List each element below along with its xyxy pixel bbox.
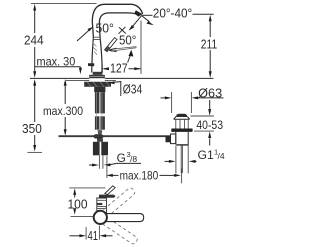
x mark xyxy=(119,27,126,34)
svg-text:40-53: 40-53 xyxy=(196,119,223,132)
label O34 xyxy=(108,81,114,84)
ball joint xyxy=(92,134,104,138)
dim G1 1/4 xyxy=(165,160,171,162)
drain seal band xyxy=(171,129,192,132)
svg-text:G1: G1 xyxy=(198,148,214,162)
side faucet: lever xyxy=(99,195,116,198)
svg-text:244: 244 xyxy=(24,34,44,48)
small tab left of body xyxy=(88,63,94,66)
base collar xyxy=(93,72,103,75)
deck bottom line xyxy=(66,80,116,82)
dim max.300 xyxy=(64,83,66,133)
svg-text:20°-40°: 20°-40° xyxy=(153,6,192,20)
dim 127 xyxy=(101,65,103,74)
solid spout arm xyxy=(100,214,143,222)
up arrow leader under 50 xyxy=(128,55,131,63)
bottom view: dim 100 xyxy=(69,187,105,189)
deck line xyxy=(30,77,213,79)
svg-text:50°: 50° xyxy=(119,33,136,47)
pivot circle xyxy=(94,211,107,224)
svg-text:max.180: max.180 xyxy=(120,169,159,182)
flexible hoses upper xyxy=(95,92,100,113)
threaded shank xyxy=(94,87,105,93)
dim 211 xyxy=(209,18,211,75)
faucet body column xyxy=(92,37,103,73)
svg-text:Ø34: Ø34 xyxy=(123,82,142,96)
horizontal popup rod xyxy=(59,135,166,137)
tip V 20-40 xyxy=(142,16,150,22)
svg-text:211: 211 xyxy=(201,37,217,51)
svg-text:50°: 50° xyxy=(96,21,114,35)
extension line from spout tip xyxy=(140,21,142,75)
svg-text:41: 41 xyxy=(88,229,99,243)
drain upper body xyxy=(176,119,188,128)
svg-text:/8: /8 xyxy=(130,154,137,164)
spout tip dark beak xyxy=(134,10,142,16)
body top cap lines xyxy=(93,37,101,39)
side faucet: body xyxy=(97,198,107,213)
dashed swivel arm up xyxy=(99,187,138,246)
body hatch marks xyxy=(93,43,98,55)
tube below nuts xyxy=(99,155,103,168)
linkage knob left xyxy=(166,135,171,142)
svg-text:max.300: max.300 xyxy=(43,105,83,118)
dim 350 xyxy=(34,83,36,149)
svg-text:127: 127 xyxy=(110,62,128,76)
lever pencil tilted 50 xyxy=(105,38,117,52)
connection nuts xyxy=(93,142,100,156)
dim 40-53 xyxy=(191,115,215,117)
svg-text:100: 100 xyxy=(68,198,88,212)
mounting hardware bar xyxy=(84,82,111,87)
popup rod center xyxy=(99,130,101,135)
svg-text:/4: /4 xyxy=(218,151,225,161)
side faucet: tab xyxy=(105,186,115,195)
base skirt xyxy=(89,75,105,78)
drain lower body xyxy=(176,132,188,145)
hoses lower xyxy=(95,116,100,129)
svg-text:350: 350 xyxy=(22,122,42,136)
dim max.180 xyxy=(106,156,108,178)
spout outline (main view) xyxy=(92,4,142,37)
drain pipe xyxy=(176,146,188,174)
dim 244 xyxy=(31,2,97,4)
drain flange xyxy=(176,114,187,117)
dim 41 xyxy=(86,226,99,240)
